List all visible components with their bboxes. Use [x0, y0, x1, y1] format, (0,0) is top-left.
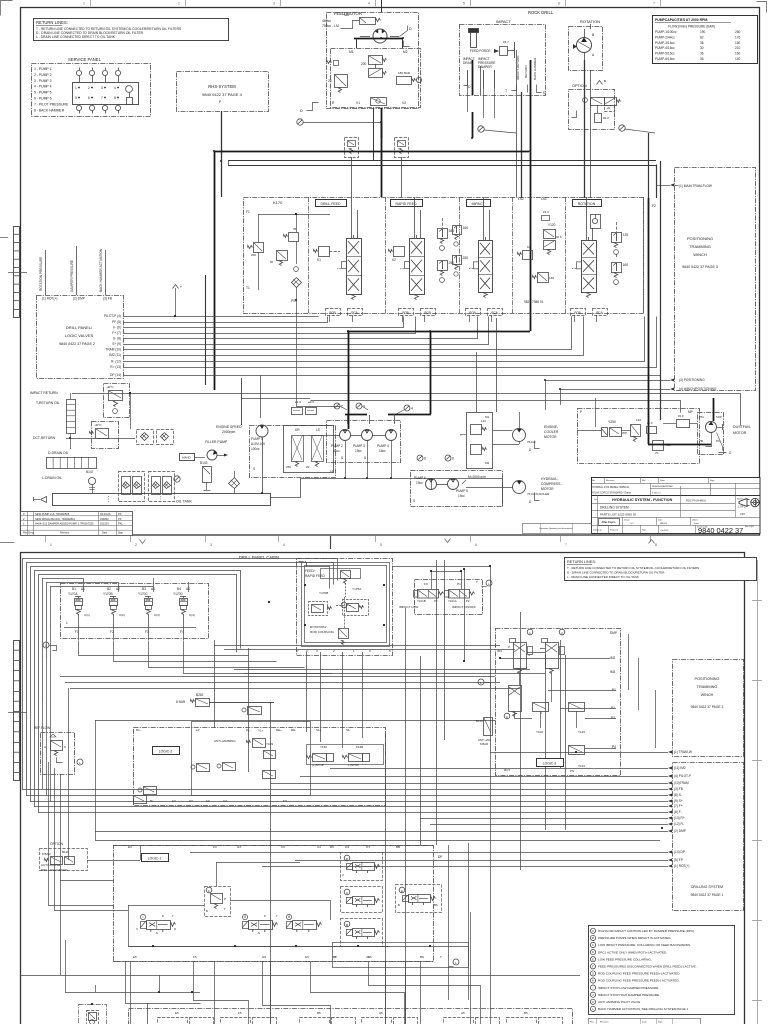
svg-text:#2.6: #2.6 — [556, 235, 562, 239]
svg-text:B5: B5 — [317, 1011, 321, 1015]
svg-text:Ref: Ref — [642, 480, 646, 482]
svg-text:IM3: IM3 — [610, 670, 616, 674]
feed joystick center — [341, 602, 347, 608]
bottom right solid loop rect — [333, 943, 469, 968]
return filters in tank — [119, 472, 145, 502]
svg-text:S: S — [156, 931, 158, 935]
svg-text:ROD COUPLING: ROD COUPLING — [310, 630, 334, 634]
net (7) F+ — [668, 805, 672, 808]
sheet2 bottom dash-dot boxes — [129, 1009, 573, 1024]
net (8) S- — [668, 794, 672, 797]
svg-text:RESERVKRAV/SPRAK: RESERVKRAV/SPRAK — [652, 485, 673, 488]
svg-text:B5: B5 — [524, 1011, 528, 1015]
svg-text:(+)STOP: (+)STOP — [312, 763, 324, 767]
svg-text:PUMP-3/15cc: PUMP-3/15cc — [655, 41, 675, 45]
title block — [592, 478, 761, 534]
svg-text:H: H — [592, 979, 594, 983]
svg-text:4: 4 — [411, 407, 413, 411]
svg-text:(3) FB: (3) FB — [674, 787, 683, 791]
svg-text:POSITIONING: POSITIONING — [695, 677, 720, 681]
svg-text:030202: 030202 — [100, 517, 109, 521]
circle L symbol sheet2 top — [43, 642, 49, 648]
svg-text:C: C — [592, 943, 594, 947]
svg-text:IMPACT RETURN: IMPACT RETURN — [30, 391, 58, 395]
svg-text:M2: M2 — [403, 50, 408, 54]
right main verticals — [648, 133, 650, 198]
valve small above logic2 — [248, 707, 262, 715]
oil tank — [53, 494, 271, 506]
svg-text:S: S — [413, 499, 415, 503]
svg-text:Y101B: Y101B — [417, 599, 426, 603]
feedv junction dots — [304, 584, 306, 586]
svg-text:Sign: Sign — [658, 1022, 663, 1024]
bottom staircase elbows — [194, 962, 249, 1024]
svg-text:7: 7 — [565, 543, 567, 547]
svg-text:250: 250 — [286, 465, 291, 469]
svg-text:X: X — [342, 873, 344, 877]
svg-text:(1) TRAM-W: (1) TRAM-W — [674, 750, 692, 754]
net (3) FB — [668, 788, 672, 791]
solenoid riser wires — [83, 578, 85, 592]
svg-text:RE+: RE+ — [276, 728, 282, 732]
svg-text:DP: DP — [438, 855, 442, 859]
bottom rail dashdot — [113, 961, 433, 963]
svg-text:1: 1 — [83, 2, 85, 6]
svg-text:PK: PK — [118, 517, 122, 521]
K170 filter — [292, 278, 302, 288]
logic-2 label — [153, 747, 180, 755]
svg-text:9840 0422 37: 9840 0422 37 — [698, 526, 743, 535]
page corner marks — [1, 1, 13, 16]
svg-text:(14) DP: (14) DP — [674, 850, 685, 854]
feed supply thick drops — [381, 122, 383, 138]
circle L bottom right — [453, 959, 459, 965]
pump1 DR LS regulators — [284, 426, 334, 473]
rotation main spool — [582, 241, 597, 293]
logic-3 Y102 valve — [533, 703, 549, 712]
svg-text:DRILL PANEL CABIN: DRILL PANEL CABIN — [239, 555, 279, 560]
svg-text:30: 30 — [700, 46, 704, 50]
net (14) DP — [668, 851, 672, 854]
rock drill impact thick feed — [472, 60, 474, 95]
svg-text:9840 0422 37 PAGE 3: 9840 0422 37 PAGE 3 — [682, 265, 718, 269]
gauges 5 6 — [417, 455, 423, 461]
svg-text:ROC F9 (H-M61): ROC F9 (H-M61) — [686, 499, 706, 503]
svg-text:Utfard: Utfard — [692, 519, 697, 522]
svg-text:A1: A1 — [81, 587, 85, 591]
svg-text:140: 140 — [735, 57, 741, 61]
svg-text:B4: B4 — [177, 587, 181, 591]
svg-text:(-)STOP: (-)STOP — [348, 763, 359, 767]
pilot bundle cascade wires — [124, 316, 319, 318]
net (5) FP — [668, 859, 672, 862]
svg-text:3 - PUMP 3: 3 - PUMP 3 — [34, 79, 52, 83]
svg-text:FILLER PUMP: FILLER PUMP — [205, 440, 228, 444]
logic-3 Y122 valve — [569, 746, 585, 755]
svg-text:H5: H5 — [379, 1011, 383, 1015]
svg-text:(1) ROT(+): (1) ROT(+) — [674, 864, 690, 868]
svg-text:PUMP-1/100cc: PUMP-1/100cc — [655, 30, 677, 34]
svg-text:BACK HAMMER ACTIVATION, SEE DR: BACK HAMMER ACTIVATION, SEE DRILLING SYS… — [598, 1007, 689, 1011]
svg-text:Rev Chng: Rev Chng — [23, 532, 34, 535]
svg-text:Y170C: Y170C — [138, 592, 148, 596]
sheet 2 border frame — [21, 553, 745, 1024]
svg-text:5: 5 — [463, 2, 465, 6]
svg-text:Drawn: Drawn — [624, 520, 630, 522]
svg-text:PK: PK — [118, 512, 122, 516]
impact drain drops — [467, 70, 469, 112]
drill feed section dash-dot — [308, 197, 310, 313]
K170 valve 35 — [289, 233, 299, 242]
svg-text:19cc: 19cc — [458, 494, 465, 498]
logic-3 valve pilot tabs — [510, 639, 516, 643]
svg-text:M2: M2 — [485, 461, 489, 465]
routing below solenoid group staircase — [79, 641, 249, 656]
verticals to bottom edge sheet2 — [130, 961, 132, 1024]
feed motor — [373, 29, 387, 43]
svg-text:(7) F+: (7) F+ — [674, 804, 683, 808]
svg-text:LOGIC-1: LOGIC-1 — [148, 857, 162, 861]
svg-text:ROTATION: ROTATION — [580, 19, 600, 24]
svg-text:44cc: 44cc — [333, 449, 340, 453]
svg-text:FEED FORCE: FEED FORCE — [470, 49, 491, 53]
svg-text:T: T — [276, 914, 278, 918]
svg-text:T - RETURN LINE CONNECTED TO R: T - RETURN LINE CONNECTED TO RETURN OIL … — [567, 566, 699, 570]
svg-text:20: 20 — [607, 106, 611, 110]
svg-text:DPC1 ACTIVE ONLY WHEN ROT(+) A: DPC1 ACTIVE ONLY WHEN ROT(+) ACTIVATED. — [598, 950, 667, 954]
svg-text:Y170A: Y170A — [68, 592, 78, 596]
svg-text:6: 6 — [424, 457, 426, 461]
svg-text:D: D — [409, 27, 412, 31]
sheet2 bottom revision strip — [589, 1019, 701, 1024]
svg-text:HYDRAULIC SYSTEM - FUNCTION: HYDRAULIC SYSTEM - FUNCTION — [612, 498, 673, 502]
gauge 2 — [334, 403, 340, 409]
circle symbol ref flow — [77, 759, 83, 765]
svg-text:6: 6 — [88, 96, 90, 100]
svg-text:(3) FB: (3) FB — [103, 297, 112, 301]
feed motor case drain — [400, 26, 408, 37]
svg-text:C45: C45 — [740, 512, 745, 516]
svg-text:H5: H5 — [305, 955, 309, 959]
svg-text:RETURN LINES:: RETURN LINES: — [567, 560, 596, 564]
svg-text:25: 25 — [328, 79, 332, 83]
svg-text:750cc - LM: 750cc - LM — [322, 24, 339, 28]
svg-text:A10V-100: A10V-100 — [251, 442, 265, 446]
impact low valve Y101B — [418, 590, 439, 599]
feed line from page top — [381, 0, 383, 12]
main tram flow leader — [656, 185, 670, 187]
svg-text:B: B — [398, 903, 400, 907]
svg-text:#1.0: #1.0 — [543, 210, 549, 214]
svg-text:T: T — [460, 433, 462, 437]
service panel gauge — [126, 86, 133, 93]
sheet1 top ruler ticks — [90, 0, 92, 6]
svg-text:C(2): C(2) — [119, 613, 125, 617]
svg-text:(4) WINCH/POSITIONING: (4) WINCH/POSITIONING — [679, 387, 717, 391]
title block bottom row — [608, 525, 610, 533]
logic-1 valve G — [249, 921, 273, 930]
svg-text:160: 160 — [549, 276, 554, 280]
svg-text:Y122: Y122 — [578, 764, 585, 768]
svg-text:8: 8 — [114, 96, 116, 100]
logic-1 valve H — [293, 921, 317, 930]
svg-text:S1+: S1+ — [316, 728, 322, 732]
svg-text:DRILL FEED: DRILL FEED — [320, 202, 341, 206]
svg-text:RAPID FEED: RAPID FEED — [395, 202, 416, 206]
svg-text:F3: F3 — [424, 582, 428, 586]
svg-text:DP (14): DP (14) — [110, 373, 121, 377]
svg-text:A: A — [592, 929, 594, 933]
svg-text:P: P — [224, 897, 226, 901]
K170 wires — [258, 214, 260, 242]
title block top row cells — [604, 477, 606, 483]
sheet2 left terminal ladder — [14, 641, 20, 781]
svg-text:PF (5): PF (5) — [112, 320, 121, 324]
svg-text:M=2000 rpm: M=2000 rpm — [468, 475, 486, 479]
svg-text:P2: P2 — [466, 599, 470, 603]
svg-text:PARTS LIST 5222-5955 92: PARTS LIST 5222-5955 92 — [600, 513, 637, 517]
svg-text:T1: T1 — [246, 286, 250, 290]
svg-text:36: 36 — [700, 52, 704, 56]
sheet1 junction dots — [213, 150, 215, 152]
net (1) ROT(+) — [668, 865, 672, 868]
svg-text:F1: F1 — [246, 210, 250, 214]
svg-text:9840 0422 37 PAGE 3: 9840 0422 37 PAGE 3 — [691, 705, 724, 709]
svg-text:LOGIC VALVES: LOGIC VALVES — [65, 333, 94, 338]
svg-text:D: D — [174, 927, 176, 931]
atlas copco logo — [599, 519, 620, 526]
svg-text:PCA: PCA — [596, 311, 602, 315]
svg-text:POB: POB — [574, 311, 580, 315]
pump3 — [362, 430, 373, 441]
svg-text:LP: LP — [196, 728, 200, 732]
svg-text:7: 7 — [101, 96, 103, 100]
dustfan motor — [706, 422, 717, 433]
svg-text:X: X — [136, 927, 138, 931]
svg-text:R1-: R1- — [136, 728, 141, 732]
pilot drops from spools — [329, 315, 331, 322]
bottom left wire y992 — [65, 992, 200, 994]
title block middle cells — [622, 517, 624, 533]
svg-text:P3: P3 — [611, 716, 615, 720]
main pressure line horizontal y151 — [214, 151, 529, 153]
svg-text:021203: 021203 — [100, 522, 109, 526]
svg-text:IMPACT STOP HIGH DAMPER PRESSU: IMPACT STOP HIGH DAMPER PRESSURE — [598, 993, 659, 997]
impact onoff group box — [415, 580, 483, 615]
logic-2 dash-dot box — [134, 728, 386, 806]
svg-text:BACK HAMMER: BACK HAMMER — [533, 57, 537, 80]
svg-text:F- (6): F- (6) — [113, 326, 121, 330]
svg-text:T-RETURN OIL: T-RETURN OIL — [36, 401, 60, 405]
logic-3 spool valve 3 — [509, 686, 522, 712]
svg-text:S: S — [364, 456, 366, 460]
svg-text:C(4): C(4) — [189, 613, 195, 617]
svg-text:9840 0422 37 PAGE 4: 9840 0422 37 PAGE 4 — [202, 92, 243, 97]
svg-text:B>: B> — [150, 799, 154, 803]
svg-text:NEW PUMP 2+4, 7R0302505: NEW PUMP 2+4, 7R0302505 — [35, 512, 70, 516]
svg-text:LS2: LS2 — [518, 197, 524, 201]
svg-text:(11) IM2: (11) IM2 — [674, 766, 686, 770]
svg-text:A5: A5 — [461, 1011, 465, 1015]
svg-text:S+ (9): S+ (9) — [112, 342, 121, 346]
svg-text:IMPACT: IMPACT — [496, 19, 511, 24]
svg-text:35: 35 — [293, 227, 297, 231]
svg-text:8: 8 — [655, 543, 657, 547]
signature strip left of title block — [523, 524, 592, 534]
svg-text:P2: P2 — [611, 706, 615, 710]
svg-text:B143: B143 — [200, 461, 208, 465]
feed motor lower dash-dot box — [331, 49, 421, 108]
pump feed thick lines — [348, 331, 350, 429]
svg-text:P: P — [508, 645, 510, 649]
svg-text:DRILL PANEL/: DRILL PANEL/ — [66, 325, 93, 330]
svg-text:TRAMMING: TRAMMING — [697, 685, 718, 689]
logic-1 bottom rail — [128, 946, 390, 948]
svg-text:D5: D5 — [330, 845, 334, 849]
svg-text:FX: FX — [206, 799, 210, 803]
circle L logic3 — [478, 679, 484, 685]
svg-text:D: D — [592, 950, 594, 954]
right column valve C — [341, 887, 383, 913]
svg-text:K1: K1 — [317, 258, 321, 262]
impact piston symbol — [471, 32, 477, 48]
feed joystick bottom valve — [339, 629, 349, 639]
svg-text:10: 10 — [527, 245, 531, 249]
logic-3 Y126 valve — [569, 703, 585, 712]
svg-text:FLOW (l/min) PRESSURE (BAR): FLOW (l/min) PRESSURE (BAR) — [668, 25, 715, 29]
svg-text:Y1+: Y1+ — [258, 729, 264, 733]
positioning box sheet1 — [675, 168, 756, 391]
drill panel top risers — [45, 250, 47, 295]
svg-text:ROD COUPLING FEED PRESSURE FEE: ROD COUPLING FEED PRESSURE FEED(-) ACTIV… — [598, 979, 680, 983]
svg-text:V2: V2 — [402, 101, 406, 105]
svg-text:125: 125 — [623, 233, 629, 237]
svg-text:LOGIC-2: LOGIC-2 — [159, 750, 173, 754]
svg-text:WP: WP — [622, 431, 627, 435]
svg-text:PUMP 2: PUMP 2 — [331, 444, 343, 448]
svg-text:P1: P1 — [612, 688, 616, 692]
svg-text:Lan: Lan — [594, 499, 597, 501]
drill feed reducer K1 — [319, 247, 330, 257]
svg-text:PUMP 3: PUMP 3 — [353, 444, 365, 448]
svg-text:POB: POB — [469, 311, 475, 315]
svg-text:ø1.6: ø1.6 — [295, 400, 301, 404]
svg-text:190: 190 — [700, 30, 706, 34]
svg-text:C(1): C(1) — [84, 613, 90, 617]
svg-text:4: 4 — [114, 86, 116, 90]
impact group top wires — [431, 571, 433, 589]
rock drill hooks — [512, 85, 517, 91]
svg-text:REF.FLOW: REF.FLOW — [34, 726, 50, 730]
return filter 2 — [149, 472, 175, 502]
svg-text:K: K — [592, 1000, 594, 1004]
svg-text:T: T — [224, 907, 226, 911]
engine cooler motor — [513, 429, 526, 442]
svg-text:Y170B: Y170B — [319, 591, 328, 595]
bottom rail extend — [128, 946, 468, 948]
svg-text:140: 140 — [636, 418, 641, 422]
svg-text:F5: F5 — [238, 1011, 242, 1015]
notes list box — [589, 926, 735, 1015]
return filter stack — [67, 400, 76, 434]
feed joystick left valve — [309, 602, 328, 616]
sheet2 lower-left horizontals — [48, 905, 113, 907]
svg-text:GX: GX — [237, 845, 241, 849]
main horizontal double line — [228, 160, 656, 162]
svg-text:WINCH: WINCH — [701, 693, 714, 697]
svg-text:4: 4 — [368, 2, 370, 6]
svg-text:DCT-RETURN: DCT-RETURN — [33, 436, 56, 440]
engine cooler drain — [535, 441, 540, 449]
return lines note box — [34, 19, 229, 41]
svg-text:8 - BACK HAMMER: 8 - BACK HAMMER — [34, 108, 65, 112]
counterbalance valve 25 — [334, 61, 339, 66]
rotation relief 160 — [612, 263, 622, 273]
manifold bottom port boxes — [326, 309, 341, 316]
svg-text:PUMP 1: PUMP 1 — [251, 437, 263, 441]
svg-text:3: 3 — [101, 86, 103, 90]
impact dash-dot box — [460, 25, 546, 96]
gauge 4 — [404, 405, 410, 411]
svg-text:A2: A2 — [116, 587, 120, 591]
svg-text:FX: FX — [213, 845, 217, 849]
svg-text:E5: E5 — [133, 955, 137, 959]
gauge 3 — [356, 403, 362, 409]
option box wire — [87, 860, 140, 862]
svg-text:PUMP 5: PUMP 5 — [456, 489, 468, 493]
svg-text:SERVICE PANEL: SERVICE PANEL — [68, 57, 102, 62]
svg-text:F: F — [208, 889, 210, 893]
svg-text:RE-: RE- — [291, 728, 296, 732]
tank gauge — [174, 476, 180, 482]
pump1 assembly box — [250, 426, 336, 478]
svg-text:(10)TRAM: (10)TRAM — [674, 781, 689, 785]
svg-text:B: B — [346, 923, 348, 927]
svg-text:B134: B134 — [476, 719, 483, 723]
svg-text:LS1: LS1 — [541, 197, 547, 201]
svg-text:140: 140 — [481, 419, 486, 423]
thermo bypass valve -40C — [104, 384, 130, 418]
svg-text:7 - PILOT PRESSURE: 7 - PILOT PRESSURE — [34, 102, 69, 106]
svg-text:7: 7 — [653, 2, 655, 6]
bottom long horizontal wire — [21, 975, 581, 977]
svg-text:Y250: Y250 — [608, 420, 616, 424]
svg-text:Revision: Revision — [60, 532, 70, 535]
svg-text:HRV05: HRV05 — [660, 523, 668, 525]
circle L impact — [486, 580, 492, 586]
svg-text:04-03-06: 04-03-06 — [100, 512, 111, 516]
drill feed check valve box A — [345, 138, 359, 158]
svg-text:B: B — [206, 909, 208, 913]
net (2) DMP — [668, 830, 672, 833]
impact main spool — [479, 241, 493, 293]
svg-text:(2) DMP: (2) DMP — [674, 829, 686, 833]
solenoid group port line — [64, 627, 196, 629]
svg-text:MANO: MANO — [182, 456, 191, 460]
net (1) TRAM-W — [668, 751, 672, 754]
net (13) R+ — [668, 817, 672, 820]
svg-text:19cc: 19cc — [416, 481, 423, 485]
net (10)TRAM — [668, 782, 672, 785]
svg-text:IMPACT STOP LOW DAMPER PRESSUR: IMPACT STOP LOW DAMPER PRESSURE — [598, 986, 658, 990]
svg-text:DRILLING SYSTEM: DRILLING SYSTEM — [600, 506, 629, 510]
svg-text:P1-: P1- — [246, 729, 251, 733]
sheet2 impact top feeder — [392, 566, 490, 568]
title block rules — [591, 483, 760, 485]
drill feed spool top wires — [351, 197, 353, 238]
svg-text:PUMP 6: PUMP 6 — [414, 476, 426, 480]
svg-text:2000rpm: 2000rpm — [222, 430, 236, 434]
